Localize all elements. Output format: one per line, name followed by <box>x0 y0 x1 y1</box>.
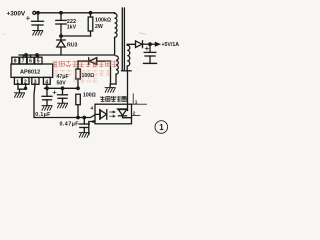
pin 3 box <box>32 77 39 84</box>
IC U1 AP8012 body <box>11 64 53 77</box>
resistor R3 100ohm lower <box>76 94 81 105</box>
watermark row 1 <box>53 61 118 68</box>
optocoupler U2 box <box>95 104 132 124</box>
capacitor C2 222/1kV snubber <box>56 13 66 36</box>
node junction dot input <box>37 12 40 15</box>
diode RU3 clamp <box>57 36 65 55</box>
node dot C3 tap <box>46 87 49 90</box>
circled 1 figure number <box>155 121 168 134</box>
node +300V terminal <box>33 11 36 14</box>
node output junction dot <box>149 43 152 46</box>
wire snubber bottom connector <box>61 35 91 37</box>
ground (aux) <box>105 88 115 93</box>
node dot pin6 <box>36 54 39 57</box>
capacitor C6 0.47uF <box>79 118 89 133</box>
opto photodiode <box>117 109 131 118</box>
capacitor C4 47uF 50V <box>53 88 68 103</box>
wire secondary return to opto pin1 <box>127 71 129 111</box>
ground (C3) <box>42 106 52 111</box>
svg-text:AP8012: AP8012 <box>20 69 40 75</box>
svg-text:2W: 2W <box>95 24 103 30</box>
svg-text:0.1μF: 0.1μF <box>35 112 51 118</box>
wire pin6 stub <box>30 55 32 57</box>
wire pin5 stub <box>37 55 39 57</box>
pin 6 box <box>27 57 34 64</box>
pin 7 box <box>20 57 27 64</box>
svg-text:1: 1 <box>135 99 138 105</box>
node junction dot C2 tap <box>60 12 63 15</box>
diode D2 aux rectifier (points left) <box>78 58 111 65</box>
wire top rail <box>36 12 115 14</box>
transformer T1 secondary winding <box>127 45 130 66</box>
svg-text:1: 1 <box>16 79 19 85</box>
wire pin4 VDD line <box>46 84 48 88</box>
opto light arrows <box>110 111 116 117</box>
node dot C4 tap <box>61 87 64 90</box>
pin 1 tick <box>132 103 147 105</box>
pin 5 box <box>35 57 42 64</box>
ground (C6) <box>79 133 89 138</box>
svg-text:50V: 50V <box>57 81 67 87</box>
ground (IC) <box>15 93 25 98</box>
node dot C6 tap <box>83 116 86 119</box>
label 光电耦合器 (simulated hanzi) <box>100 96 126 101</box>
transformer T1 aux winding <box>116 56 118 74</box>
svg-text:100kΩ: 100kΩ <box>95 18 111 24</box>
capacitor C3 0.1uF <box>42 88 52 105</box>
ground (input cap) <box>33 31 43 36</box>
svg-text:2: 2 <box>133 111 136 117</box>
wire pins 1-2 to ground <box>18 84 26 89</box>
watermark row 2 <box>54 70 111 76</box>
ground (C4) <box>58 103 68 108</box>
wire pin7 stub <box>22 55 24 57</box>
opto LED <box>95 109 107 119</box>
node dot R3 bottom <box>77 116 80 119</box>
svg-text:3: 3 <box>92 119 95 125</box>
pin 2 box <box>22 77 29 84</box>
svg-text:RU3: RU3 <box>67 42 77 48</box>
svg-text:100Ω: 100Ω <box>83 93 96 99</box>
resistor R1 100k 2W <box>88 13 93 36</box>
node junction dot R1 tap <box>89 12 92 15</box>
pin 2 tick <box>132 114 141 116</box>
wire pin3 lead <box>89 122 95 135</box>
pin 1 box <box>14 77 21 84</box>
resistor R2 100ohm upper <box>76 61 81 88</box>
svg-text:+300V: +300V <box>7 11 26 18</box>
pin 8 box <box>12 57 19 64</box>
node dot pin2 gnd <box>25 87 27 89</box>
pin 4 box <box>43 77 50 84</box>
wire aux diode to ground <box>110 61 112 84</box>
wire secondary top lead <box>127 43 135 46</box>
wire primary bottom lead <box>114 37 116 55</box>
ground bar (output cap) <box>144 62 157 64</box>
svg-text:+5V/1A: +5V/1A <box>162 42 180 48</box>
svg-text:1kV: 1kV <box>67 25 77 31</box>
node dot pin7 <box>25 54 28 57</box>
wire pin3 FB line <box>34 84 95 117</box>
svg-text:47μF: 47μF <box>57 74 69 80</box>
transformer T1 primary winding <box>115 13 117 38</box>
wire drain line <box>19 54 115 56</box>
svg-text:3: 3 <box>34 79 37 85</box>
svg-text:7: 7 <box>22 59 25 65</box>
ground bar (secondary) <box>122 70 132 72</box>
svg-text:8: 8 <box>14 59 17 65</box>
wire secondary bottom lead <box>126 66 128 71</box>
svg-text:0.47μF: 0.47μF <box>60 122 80 128</box>
diode D1 output rectifier <box>136 41 151 48</box>
wire aux bottom to ground <box>115 74 117 84</box>
svg-text:1: 1 <box>159 123 164 132</box>
capacitor C5 output electrolytic <box>144 44 156 63</box>
faint corner smudges <box>3 33 146 36</box>
watermark row 3 <box>74 77 97 82</box>
node snubber junction dot <box>60 35 63 38</box>
svg-text:5: 5 <box>37 59 40 65</box>
svg-text:4: 4 <box>45 79 48 85</box>
node dot R2-R3 <box>77 87 80 90</box>
svg-text:2: 2 <box>24 79 27 85</box>
capacitor C1 input electrolytic <box>26 13 43 31</box>
svg-text:6: 6 <box>29 59 32 65</box>
wire output arrow <box>150 43 156 45</box>
svg-text:4: 4 <box>91 105 94 111</box>
transformer core <box>122 8 124 70</box>
